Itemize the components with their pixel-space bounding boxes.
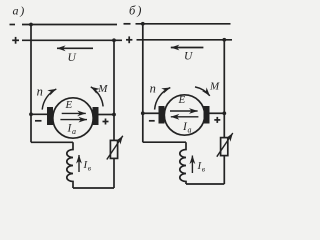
svg-text:E: E (178, 94, 186, 106)
armature current arrow (a) (60, 119, 87, 121)
svg-text:M: M (209, 80, 220, 92)
armature current label Ia (a) (67, 122, 77, 136)
junction dot right brush wire (a) (112, 113, 116, 117)
positive supply rail (b) (137, 39, 233, 41)
EMF label E (a) (65, 99, 73, 111)
field winding coil (b) (180, 142, 186, 184)
minus terminal label (b) (124, 23, 131, 25)
EMF arrow (b) (170, 110, 198, 112)
right vertical wire lower (a) (113, 158, 115, 188)
svg-text:а: а (72, 127, 76, 136)
armature circle (b) (164, 95, 204, 135)
positive supply rail (a) (22, 39, 122, 41)
rheostat (a) (110, 140, 117, 158)
label M (b) (209, 80, 220, 92)
junction dot left brush wire (a) (29, 112, 33, 116)
EMF label E (b) (178, 94, 186, 106)
minus terminal label (a) (10, 24, 16, 26)
negative supply rail (b) (136, 23, 231, 25)
negative supply rail (a) (22, 24, 117, 26)
svg-text:n: n (37, 85, 43, 99)
right vertical wire upper (a) (113, 40, 115, 140)
plus polarity label right brush (b) (214, 119, 220, 121)
right brush (a) (93, 107, 99, 125)
armature circle (a) (53, 98, 93, 138)
label b) (129, 3, 141, 17)
right vertical wire upper (b) (223, 40, 225, 138)
junction dot positive rail (b) (222, 38, 226, 42)
field winding coil (a) (67, 142, 73, 188)
plus terminal label (a) (12, 39, 19, 41)
bottom wire (b) (186, 183, 224, 185)
label Iv (a) (83, 159, 92, 173)
svg-text:E: E (65, 99, 73, 111)
field branch horizontal wire (b) (143, 141, 186, 143)
rheostat (b) (221, 138, 228, 156)
wire left vertical to left brush (b) (143, 112, 159, 114)
left vertical wire (a) (30, 25, 32, 143)
current arrow U (a) (57, 47, 93, 49)
torque arrow M (a) (91, 87, 103, 107)
wire left vertical to left brush (a) (31, 113, 48, 115)
label a) (13, 3, 25, 17)
minus polarity label left brush (a) (35, 120, 42, 122)
svg-text:а): а) (13, 3, 25, 17)
svg-text:M: M (97, 83, 108, 95)
EMF arrow (a) (62, 112, 86, 114)
svg-text:а: а (188, 126, 192, 135)
armature current label Ia (b) (182, 121, 192, 135)
plus polarity label right brush (a) (103, 121, 109, 123)
right vertical wire lower (b) (223, 156, 225, 184)
label U (b) (184, 51, 193, 63)
svg-text:U: U (68, 52, 77, 64)
left brush (a) (47, 107, 53, 125)
left brush (b) (159, 106, 165, 124)
junction dot negative rail (a) (29, 23, 33, 27)
svg-text:б): б) (129, 3, 141, 17)
rotation arrow n (a) (42, 89, 56, 110)
plus terminal label (b) (126, 39, 132, 41)
armature current arrow (b) (171, 116, 199, 118)
label n (b) (150, 82, 156, 96)
junction dot positive rail (a) (112, 38, 116, 42)
right brush (b) (204, 106, 210, 124)
junction dot right brush wire (b) (222, 111, 226, 115)
svg-text:в: в (88, 163, 92, 172)
torque arrow M (b) (195, 87, 210, 96)
label Iv (b) (197, 160, 206, 174)
field branch horizontal wire (a) (31, 141, 73, 143)
junction dot negative rail (b) (141, 22, 145, 26)
rotation arrow n (b) (155, 88, 171, 110)
rheostat arrow (b) (217, 133, 233, 157)
current arrow U (b) (171, 47, 204, 49)
label n (a) (37, 85, 43, 99)
svg-text:n: n (150, 82, 156, 96)
wire right brush to right vertical (a) (99, 114, 115, 116)
field current arrow Iv (a) (78, 155, 80, 172)
field current arrow Iv (b) (191, 156, 193, 174)
minus polarity label left brush (b) (149, 120, 155, 122)
label U (a) (68, 52, 77, 64)
wire right brush to right vertical (b) (210, 112, 225, 114)
svg-text:в: в (202, 164, 206, 173)
bottom wire (a) (73, 187, 114, 189)
svg-text:U: U (184, 51, 193, 63)
left vertical wire (b) (142, 24, 144, 142)
junction dot left brush wire (b) (141, 111, 145, 115)
rheostat arrow (a) (107, 136, 123, 160)
label M (a) (97, 83, 108, 95)
